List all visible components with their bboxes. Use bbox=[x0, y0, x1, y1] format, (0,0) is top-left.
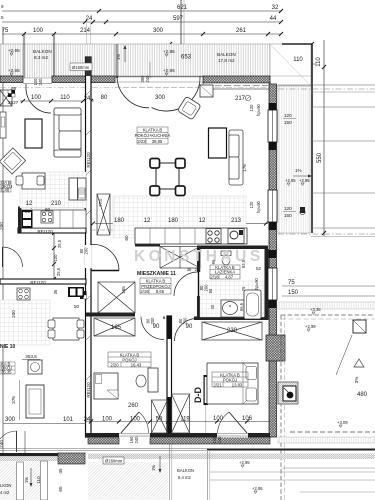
svg-text:5: 5 bbox=[1, 15, 4, 20]
door gap in fire wall (hall entry) bbox=[85, 245, 92, 268]
window bathroom bbox=[268, 268, 277, 300]
bathroom top wall y=247 bbox=[197, 246, 268, 250]
left apt horizontal wall REI120 y=228 bbox=[18, 228, 86, 233]
left apt sofa bbox=[54, 108, 81, 157]
corner diagonal bbox=[271, 45, 310, 85]
svg-text:119: 119 bbox=[180, 417, 190, 423]
svg-text:9: 9 bbox=[1, 4, 4, 9]
svg-text:+2,95: +2,95 bbox=[8, 48, 20, 53]
svg-text:75: 75 bbox=[241, 286, 246, 291]
svg-text:100: 100 bbox=[53, 254, 58, 262]
svg-text:+2,95: +2,95 bbox=[8, 68, 20, 73]
svg-text:36: 36 bbox=[187, 267, 192, 272]
dim vertical x=3 ticks bbox=[95, 223, 268, 225]
hall wardrobe X bbox=[160, 247, 200, 269]
svg-text:0,48: 0,48 bbox=[1, 188, 10, 193]
bathroom outer wall corner block bbox=[266, 335, 285, 361]
svg-text:44: 44 bbox=[270, 16, 277, 22]
kitchen-hall wall y=246 segment bbox=[135, 244, 160, 247]
svg-text:100: 100 bbox=[33, 28, 44, 34]
terrace double dashed y=316 bbox=[281, 314, 375, 316]
svg-text:2/23: 2/23 bbox=[137, 139, 146, 144]
bedroom2 door arc top bbox=[175, 319, 198, 342]
svg-text:90: 90 bbox=[186, 324, 193, 330]
left apt2 stove bbox=[17, 288, 30, 300]
svg-text:120: 120 bbox=[284, 113, 292, 118]
svg-text:24: 24 bbox=[84, 96, 91, 102]
svg-text:653: 653 bbox=[181, 55, 192, 61]
svg-text:BALKON: BALKON bbox=[33, 49, 52, 54]
svg-text:8,65: 8,65 bbox=[156, 289, 165, 294]
svg-text:56,5: 56,5 bbox=[239, 302, 244, 311]
bottom lines bbox=[282, 467, 375, 469]
svg-text:12: 12 bbox=[144, 218, 151, 224]
left apt entry door arc bbox=[26, 88, 51, 113]
svg-text:25: 25 bbox=[25, 209, 31, 214]
bathtub bbox=[244, 290, 261, 319]
balkon 17.8 m2 floor top-center bbox=[115, 44, 270, 77]
svg-text:+2,95: +2,95 bbox=[299, 178, 310, 183]
svg-text:8,3 m2: 8,3 m2 bbox=[34, 55, 48, 60]
left apt2 dining table 4 chairs bbox=[53, 318, 79, 340]
svg-text:200: 200 bbox=[84, 247, 89, 255]
left apt bottom wall y=455 bbox=[0, 453, 61, 456]
svg-text:110: 110 bbox=[293, 57, 303, 63]
corner window symbol terrace bbox=[278, 382, 298, 404]
terrace vertical dashed x=289 bbox=[280, 315, 282, 500]
svg-text:KLATKA B: KLATKA B bbox=[146, 279, 166, 284]
svg-text:Ø160mm: Ø160mm bbox=[105, 459, 123, 464]
svg-text:24: 24 bbox=[86, 16, 93, 22]
svg-text:50: 50 bbox=[156, 417, 163, 423]
svg-text:2/21: 2/21 bbox=[213, 382, 222, 387]
svg-text:hp=90: hp=90 bbox=[254, 277, 259, 289]
left apt vertical wall x=18 bbox=[18, 207, 22, 233]
left apt kitchen2 tile floor bbox=[0, 300, 50, 345]
center kitchen counter row bbox=[135, 228, 247, 244]
left apt diamond table bbox=[0, 148, 26, 174]
drain circle bbox=[300, 209, 305, 214]
svg-text:1%: 1% bbox=[151, 465, 156, 471]
svg-text:hp=90: hp=90 bbox=[256, 200, 261, 212]
dim line 75/100/214/300/261 bbox=[2, 33, 281, 35]
svg-text:3%: 3% bbox=[354, 377, 359, 384]
center apt sofa vertical bbox=[229, 130, 243, 185]
svg-text:65: 65 bbox=[58, 486, 63, 492]
dim line left apt bottom row bbox=[3, 423, 86, 425]
front wall window sill line kitchen bbox=[203, 83, 270, 89]
svg-text:24: 24 bbox=[84, 417, 91, 423]
svg-text:93,5: 93,5 bbox=[241, 259, 246, 268]
right narrow balcony strip bbox=[278, 86, 310, 233]
svg-text:NIE 10: NIE 10 bbox=[0, 344, 16, 350]
bathroom left wall x=197 bbox=[197, 249, 200, 272]
svg-text:45: 45 bbox=[58, 468, 63, 474]
main double balcony door arcs bbox=[117, 76, 149, 108]
bed bedroom1 bbox=[94, 373, 118, 399]
svg-text:200: 200 bbox=[11, 310, 16, 318]
svg-text:hp=90: hp=90 bbox=[256, 103, 261, 115]
svg-text:16,43: 16,43 bbox=[131, 362, 142, 367]
shaft X box tall living bbox=[97, 194, 110, 235]
svg-text:100: 100 bbox=[31, 95, 42, 101]
svg-text:35,35: 35,35 bbox=[1, 369, 12, 374]
balkon 8.3 m2 floor top-left bbox=[0, 44, 115, 78]
svg-text:60: 60 bbox=[124, 235, 129, 241]
left apt coffee table bbox=[25, 119, 42, 148]
svg-text:+2,99: +2,99 bbox=[305, 324, 316, 329]
svg-text:36: 36 bbox=[53, 289, 58, 294]
bottom wall hatch band bbox=[88, 437, 119, 444]
svg-text:1%: 1% bbox=[295, 168, 302, 173]
terrace top line bbox=[278, 84, 375, 86]
svg-text:1%: 1% bbox=[116, 54, 121, 60]
right vertical dim line 110/550 bbox=[323, 40, 325, 236]
svg-text:240: 240 bbox=[0, 440, 4, 448]
bedroom1 door opening + arc bbox=[141, 317, 164, 340]
svg-text:214: 214 bbox=[80, 28, 91, 34]
svg-text:REI120: REI120 bbox=[37, 229, 53, 234]
washbasin bbox=[221, 300, 244, 317]
svg-text:1%: 1% bbox=[24, 477, 29, 483]
svg-text:REI120: REI120 bbox=[86, 382, 91, 398]
svg-text:120: 120 bbox=[249, 201, 254, 209]
svg-text:25,5: 25,5 bbox=[57, 239, 62, 248]
svg-text:260: 260 bbox=[128, 403, 139, 409]
hall entry door leaf+arc bbox=[91, 270, 119, 272]
left apt mini table bbox=[0, 181, 11, 192]
svg-text:+2,95: +2,95 bbox=[252, 486, 263, 491]
left apt hall door arc at left wall bbox=[3, 247, 23, 267]
svg-text:110: 110 bbox=[36, 476, 41, 484]
left apt stove 4 burners bbox=[41, 211, 53, 223]
svg-text:150: 150 bbox=[288, 290, 299, 296]
left apt horizontal wall REI120 y=279 bbox=[0, 279, 86, 284]
bed bedroom2 bbox=[207, 363, 258, 404]
terrace line y=228 bbox=[311, 227, 375, 229]
svg-text:32: 32 bbox=[272, 5, 279, 11]
svg-text:13,83: 13,83 bbox=[232, 382, 243, 387]
svg-text:240: 240 bbox=[38, 78, 43, 86]
center apt armchair bbox=[177, 96, 201, 120]
dim line 110 corner bbox=[282, 63, 316, 65]
svg-text:LKON: LKON bbox=[0, 483, 11, 488]
wardrobe X bedroom1 bottom bbox=[152, 400, 168, 433]
left apt kitchen tile floor bbox=[20, 172, 86, 208]
svg-text:68: 68 bbox=[11, 86, 17, 91]
roof hatch band y=303 bbox=[278, 302, 375, 309]
left apt dining table bbox=[22, 173, 45, 189]
svg-text:240: 240 bbox=[134, 436, 139, 444]
svg-text:621: 621 bbox=[177, 5, 188, 11]
svg-text:2527: 2527 bbox=[8, 100, 19, 105]
right exterior wall band with windows bbox=[269, 84, 277, 437]
terrace dashdot line y=89 bbox=[278, 88, 375, 90]
dim ticks row3 bbox=[22, 9, 283, 36]
left apt fridge boxes bbox=[69, 178, 78, 200]
svg-text:150: 150 bbox=[284, 120, 292, 125]
svg-text:120: 120 bbox=[249, 104, 254, 112]
klatka b table living bbox=[137, 127, 168, 144]
hall-bedroom1 wall y=313 bbox=[86, 313, 135, 317]
left balcony side walls bbox=[17, 462, 24, 500]
balcony divider center bbox=[115, 44, 117, 78]
window living 2 bbox=[268, 190, 277, 222]
svg-text:200: 200 bbox=[0, 222, 4, 230]
svg-text:210: 210 bbox=[51, 201, 62, 207]
svg-text:90: 90 bbox=[153, 324, 160, 330]
bedroom2 table bbox=[212, 372, 248, 387]
bedroom1 table bbox=[108, 352, 151, 367]
desk bedroom1 bbox=[148, 368, 158, 392]
bathroom right wall x=265 bbox=[265, 249, 269, 320]
svg-text:2/20: 2/20 bbox=[110, 362, 119, 367]
svg-text:BALKON: BALKON bbox=[177, 468, 194, 473]
bottom hatch band right bbox=[278, 437, 375, 443]
fire wall REI120 vertical x=86 bbox=[86, 57, 92, 437]
svg-text:180: 180 bbox=[114, 218, 125, 224]
svg-text:Ø160mm: Ø160mm bbox=[72, 65, 90, 70]
svg-text:101: 101 bbox=[63, 417, 74, 423]
left apt tv cabinet bbox=[0, 112, 6, 138]
left apt washer bbox=[28, 360, 42, 374]
bottom balcony center floor bbox=[88, 462, 168, 500]
bedroom2 top wall y=317 bbox=[194, 317, 268, 321]
svg-text:480: 480 bbox=[357, 392, 368, 398]
left apt wardrobe bottom bbox=[26, 385, 44, 418]
svg-text:17,8 m2: 17,8 m2 bbox=[218, 58, 235, 63]
svg-text:+2,95: +2,95 bbox=[163, 68, 175, 73]
slope arrow top balcony bbox=[124, 46, 126, 62]
front exterior wall segment 2 bbox=[52, 76, 115, 83]
hall table bbox=[140, 278, 171, 294]
svg-text:376: 376 bbox=[11, 396, 16, 404]
o160 top bbox=[70, 63, 92, 71]
bathroom table bbox=[210, 265, 240, 279]
svg-text:150: 150 bbox=[284, 213, 292, 218]
svg-text:240: 240 bbox=[217, 436, 222, 444]
svg-text:100: 100 bbox=[102, 417, 113, 423]
wardrobe X bedroom2 bbox=[202, 322, 262, 340]
svg-text:REI120: REI120 bbox=[86, 152, 91, 168]
bathroom door leaf+arc bbox=[198, 272, 200, 296]
svg-text:40: 40 bbox=[210, 304, 215, 309]
svg-text:180: 180 bbox=[168, 218, 179, 224]
dim line 621 top bbox=[2, 10, 282, 12]
wardrobe X bedroom2 bottom-left bbox=[172, 394, 190, 433]
svg-text:100: 100 bbox=[213, 416, 224, 422]
svg-text:110: 110 bbox=[60, 95, 70, 101]
checker icon 68 bbox=[8, 90, 15, 97]
svg-text:106: 106 bbox=[242, 416, 253, 422]
svg-text:+3,09: +3,09 bbox=[337, 420, 348, 425]
svg-text:+2,95: +2,95 bbox=[163, 49, 175, 54]
svg-text:BALKON: BALKON bbox=[217, 52, 236, 57]
bedroom1 balcony door opening bbox=[119, 433, 150, 438]
svg-text:52: 52 bbox=[256, 266, 262, 271]
drain box small bbox=[300, 207, 305, 213]
left mini table 2 bbox=[0, 362, 15, 374]
dim line left kitchen y=206.5 bbox=[18, 206, 86, 208]
svg-text:2/19: 2/19 bbox=[140, 289, 149, 294]
svg-text:240: 240 bbox=[145, 75, 150, 83]
svg-text:2/18: 2/18 bbox=[210, 274, 219, 279]
svg-text:12: 12 bbox=[26, 201, 33, 207]
svg-text:353,5: 353,5 bbox=[25, 354, 37, 359]
bottom wall y=433 bbox=[86, 433, 270, 437]
svg-text:D-D: D-D bbox=[193, 387, 203, 403]
svg-text:4,87: 4,87 bbox=[225, 274, 234, 279]
svg-text:550: 550 bbox=[317, 152, 323, 163]
dim line bottom doors row bbox=[86, 421, 270, 423]
bottom balcony dashed divider bbox=[169, 444, 171, 500]
terrace box wpust bbox=[353, 320, 366, 333]
shaft X box hall bbox=[98, 282, 135, 313]
svg-text:110: 110 bbox=[316, 57, 322, 67]
dim vertical hall left x=54 bbox=[53, 233, 55, 279]
toilet bbox=[221, 251, 231, 256]
center apt dining table 4 chairs dark bbox=[156, 163, 179, 189]
center sink bbox=[228, 229, 244, 244]
bedroom divider wall x=167.5 bbox=[167, 316, 172, 433]
terrace line y=141 bbox=[311, 140, 375, 142]
left apt2 sink unit black bbox=[68, 287, 84, 297]
svg-text:22: 22 bbox=[195, 267, 200, 272]
svg-text:MIESZKANIE 11: MIESZKANIE 11 bbox=[137, 271, 176, 277]
section line D-D bbox=[181, 0, 208, 433]
svg-text:+2,95: +2,95 bbox=[239, 460, 250, 465]
left apt counter + sink black bbox=[21, 210, 86, 228]
wardrobe X bedroom1 top bbox=[94, 318, 135, 336]
terrace dashdot y=234 bbox=[278, 233, 375, 235]
left vertical dim line bbox=[2, 28, 4, 455]
terrace line y=193 bbox=[311, 192, 375, 194]
main drawing groups inserted below bbox=[2, 9, 326, 455]
svg-text:213: 213 bbox=[231, 218, 242, 224]
svg-text:+3,38: +3,38 bbox=[310, 307, 321, 312]
Ø160mm box bottom bbox=[103, 457, 124, 464]
dim line 597 bbox=[2, 21, 281, 23]
bottom-right terrace dashed line y=432 bbox=[290, 431, 375, 433]
svg-text:300: 300 bbox=[153, 28, 164, 34]
bedroom2 balcony door opening bbox=[217, 433, 248, 438]
triangle symbol bbox=[354, 359, 364, 367]
svg-text:60: 60 bbox=[45, 207, 51, 212]
svg-text:80: 80 bbox=[101, 95, 108, 101]
wall piers black on right wall bbox=[269, 103, 277, 110]
bathroom tile floor bbox=[200, 281, 264, 317]
kitchen tile floor center apt bbox=[113, 196, 246, 238]
svg-text:25,5: 25,5 bbox=[56, 267, 61, 276]
balcony corner strip right bbox=[270, 44, 311, 86]
svg-text:230: 230 bbox=[227, 328, 238, 334]
center stove 4 burners bbox=[206, 229, 221, 244]
checker icon left wall hall bbox=[80, 291, 87, 299]
svg-text:176: 176 bbox=[242, 164, 247, 172]
window living 1 bbox=[268, 110, 277, 142]
front exterior wall right segment (window band) bbox=[203, 76, 270, 83]
boundary line y=286 75 bbox=[282, 285, 375, 287]
bottom-left balcony floor bbox=[0, 462, 16, 500]
svg-text:75: 75 bbox=[288, 280, 295, 286]
center apt coffee table bbox=[209, 128, 227, 158]
svg-text:165: 165 bbox=[111, 325, 122, 331]
svg-text:217: 217 bbox=[235, 96, 246, 102]
svg-text:100: 100 bbox=[130, 417, 141, 423]
svg-text:165: 165 bbox=[121, 286, 126, 294]
svg-text:597: 597 bbox=[173, 16, 184, 22]
svg-text:261: 261 bbox=[236, 28, 247, 34]
interior dim row left apt y=101 bbox=[20, 100, 94, 102]
leader line bbox=[336, 335, 352, 375]
svg-text:REI120: REI120 bbox=[30, 280, 46, 285]
svg-text:38,85: 38,85 bbox=[152, 139, 163, 144]
bottom solid line y=449 bbox=[207, 449, 375, 451]
terrace line y=92 bbox=[311, 91, 375, 93]
svg-text:95: 95 bbox=[211, 259, 216, 264]
svg-text:POKÓJ+KUCHNIA: POKÓJ+KUCHNIA bbox=[135, 133, 171, 138]
left apt top-left X wardrobe bbox=[0, 90, 12, 106]
svg-text:+2,95: +2,95 bbox=[285, 178, 296, 183]
center apt tall cabinet bbox=[200, 85, 213, 97]
svg-text:4 m2: 4 m2 bbox=[0, 490, 10, 495]
boundary line y=296 150 bbox=[282, 295, 375, 297]
svg-text:300: 300 bbox=[5, 417, 16, 423]
terrace line y=107 bbox=[311, 106, 375, 108]
svg-text:50: 50 bbox=[74, 304, 80, 309]
svg-text:8,4 m2: 8,4 m2 bbox=[178, 475, 191, 480]
svg-text:90: 90 bbox=[208, 288, 213, 293]
svg-text:773: 773 bbox=[98, 199, 103, 207]
front exterior wall left segment bbox=[0, 76, 23, 83]
svg-text:12: 12 bbox=[199, 218, 206, 224]
top-right corner wall thick bbox=[282, 44, 312, 233]
svg-text:120: 120 bbox=[284, 206, 292, 211]
svg-text:75: 75 bbox=[2, 28, 9, 34]
top balcony left divider wall bbox=[22, 34, 24, 78]
svg-text:300: 300 bbox=[155, 95, 166, 101]
svg-text:KLATKA B: KLATKA B bbox=[143, 128, 163, 133]
